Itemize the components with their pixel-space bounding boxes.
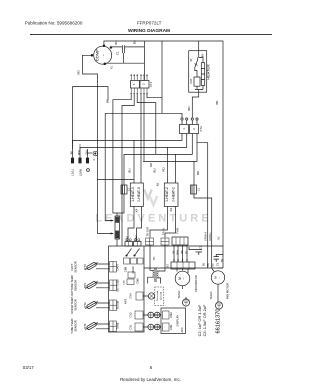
svg-text:XT2: XT2 <box>199 126 203 132</box>
svg-text:RD: RD <box>162 167 166 172</box>
svg-text:0-HEAT-3: 0-HEAT-3 <box>137 187 141 202</box>
svg-text:RD: RD <box>149 163 153 167</box>
svg-text:SENSOR: SENSOR <box>74 280 78 291</box>
svg-text:TR-OUT: TR-OUT <box>146 226 150 236</box>
svg-text:~: ~ <box>100 53 105 56</box>
svg-text:RT4: RT4 <box>83 264 87 270</box>
svg-text:X3: X3 <box>165 264 169 268</box>
svg-text:WIRING DIAGRAM: WIRING DIAGRAM <box>128 28 170 34</box>
svg-text:FAN MOTOR: FAN MOTOR <box>194 275 198 292</box>
svg-text:OUTTUBE TEMP.: OUTTUBE TEMP. <box>70 275 74 297</box>
svg-text:(optional): (optional) <box>159 292 162 301</box>
svg-text:RT3: RT3 <box>83 282 87 288</box>
svg-text:~: ~ <box>217 276 221 278</box>
svg-text:K4: K4 <box>135 208 139 212</box>
svg-text:COMP: COMP <box>95 49 100 61</box>
svg-text:LEADVENTURE: LEADVENTURE <box>95 213 212 225</box>
svg-text:CN4: CN4 <box>129 293 133 299</box>
svg-text:AP3: AP3 <box>180 327 184 332</box>
svg-text:GN: GN <box>85 151 89 155</box>
svg-text:2: 2 <box>142 83 146 85</box>
svg-text:FAN MOTOR: FAN MOTOR <box>226 283 230 300</box>
svg-text:BK: BK <box>196 171 200 175</box>
svg-text:BK: BK <box>172 250 175 254</box>
svg-text:DAVT: DAVT <box>115 263 119 270</box>
svg-text:CN5: CN5 <box>124 280 126 285</box>
svg-text:TUBE: TUBE <box>115 322 119 329</box>
svg-text:K3: K3 <box>169 207 173 211</box>
svg-text:BN: BN <box>207 263 210 267</box>
svg-text:BK: BK <box>106 99 110 103</box>
svg-text:6: 6 <box>150 365 153 370</box>
svg-text:OUTTUBE: OUTTUBE <box>115 279 119 292</box>
svg-text:ROOM TEMP.: ROOM TEMP. <box>70 296 74 313</box>
svg-text:AP2: AP2 <box>124 298 128 304</box>
svg-text:BU: BU <box>133 40 137 44</box>
svg-text:WH: WH <box>77 150 81 155</box>
svg-text:2: 2 <box>192 128 196 130</box>
svg-text:GFAN-H: GFAN-H <box>205 232 208 241</box>
svg-text:N1: N1 <box>156 182 160 186</box>
svg-text:CN8: CN8 <box>136 278 140 284</box>
svg-text:1-HEAT-3: 1-HEAT-3 <box>131 187 135 202</box>
svg-text:CN10: CN10 <box>131 266 135 273</box>
svg-text:BK: BK <box>203 263 206 267</box>
svg-text:TR-IN: TR-IN <box>162 228 166 235</box>
svg-text:Publication No: 5995686200: Publication No: 5995686200 <box>25 20 83 25</box>
svg-text:L2(N): L2(N) <box>79 169 83 177</box>
svg-text:GFAN-L: GFAN-L <box>209 232 212 241</box>
svg-text:CN1: CN1 <box>129 324 133 330</box>
svg-text:N1: N1 <box>217 236 221 240</box>
svg-text:BN: BN <box>181 250 184 254</box>
svg-text:L1(L): L1(L) <box>71 169 75 176</box>
svg-text:YL: YL <box>109 65 113 69</box>
svg-text:CN2: CN2 <box>134 235 138 241</box>
svg-text:SENSOR: SENSOR <box>74 261 78 272</box>
svg-text:FFRP072LT: FFRP072LT <box>137 20 162 25</box>
svg-text:YE/GN: YE/GN <box>177 290 181 298</box>
svg-text:L1: L1 <box>196 188 200 191</box>
svg-text:BU: BU <box>212 263 215 267</box>
svg-text:FUT: FUT <box>189 78 193 83</box>
svg-text:~: ~ <box>182 277 186 279</box>
svg-text:1-HEAT-2: 1-HEAT-2 <box>165 187 169 202</box>
svg-text:WH: WH <box>177 250 180 254</box>
svg-text:YE/GN: YE/GN <box>209 291 213 299</box>
svg-text:BK: BK <box>215 100 219 104</box>
svg-text:TC: TC <box>152 257 156 261</box>
svg-text:BU: BU <box>128 168 132 172</box>
svg-text:03/17: 03/17 <box>23 365 35 370</box>
svg-text:RT1: RT1 <box>83 323 87 329</box>
svg-text:TUBE TEMP.: TUBE TEMP. <box>70 318 74 334</box>
svg-text:SENSOR: SENSOR <box>74 320 78 331</box>
svg-text:SENSOR: SENSOR <box>74 299 78 310</box>
svg-text:C1: C1 <box>115 51 119 55</box>
svg-text:BU: BU <box>114 41 118 45</box>
svg-text:BN: BN <box>200 53 204 57</box>
svg-text:1: 1 <box>182 128 186 130</box>
svg-text:C2: C2 <box>199 245 203 249</box>
svg-text:CN3: CN3 <box>169 312 173 318</box>
svg-text:XT1: XT1 <box>149 81 153 87</box>
svg-text:RT2: RT2 <box>83 302 87 308</box>
svg-text:C3: C3 <box>217 262 220 266</box>
svg-text:CN1: CN1 <box>126 235 130 241</box>
svg-text:RD: RD <box>186 251 189 255</box>
svg-text:0-HEAT-2: 0-HEAT-2 <box>172 187 176 202</box>
svg-text:ROOM: ROOM <box>115 300 119 309</box>
svg-text:DAVT: DAVT <box>70 263 74 270</box>
svg-text:BU: BU <box>153 168 157 172</box>
svg-text:CN9: CN9 <box>124 266 128 272</box>
svg-text:BK: BK <box>70 151 74 155</box>
svg-text:1: 1 <box>132 83 136 85</box>
svg-text:G: G <box>93 158 96 160</box>
svg-text:RD: RD <box>77 70 81 75</box>
svg-text:Thermostat: Thermostat <box>156 291 159 302</box>
svg-text:BN: BN <box>187 106 191 110</box>
svg-text:HEATER: HEATER <box>206 64 211 80</box>
svg-text:CN3: CN3 <box>129 312 133 318</box>
svg-text:DISPLAY: DISPLAY <box>175 315 179 327</box>
svg-text:C3: 1.5uF OR 2uF: C3: 1.5uF OR 2uF <box>202 304 207 336</box>
svg-text:ST: ST <box>189 58 193 62</box>
svg-text:CN1: CN1 <box>169 324 173 330</box>
svg-text:BN: BN <box>221 259 224 263</box>
svg-text:FAN: FAN <box>176 228 180 234</box>
svg-text:Rendered by LeadVenture, Inc.: Rendered by LeadVenture, Inc. <box>120 377 181 382</box>
svg-text:66161370: 66161370 <box>216 309 222 334</box>
